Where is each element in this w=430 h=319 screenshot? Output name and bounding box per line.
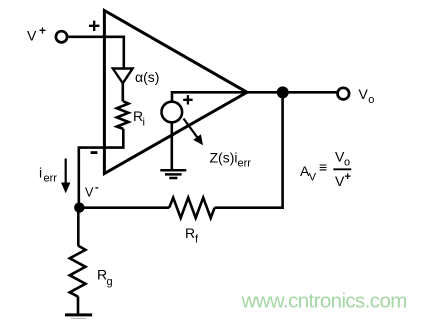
wire V+ input — [69, 35, 124, 38]
svg-text:R: R — [185, 225, 195, 241]
svg-text:i: i — [143, 117, 145, 129]
svg-text:+: + — [39, 24, 46, 38]
label Vo — [359, 86, 375, 106]
resistor Rf — [169, 198, 214, 218]
resistor Ri — [117, 101, 129, 129]
label + (source polarity) — [183, 95, 192, 104]
wire inverting input (Ri bottom to V- node) — [79, 129, 124, 208]
wire alpha to Ri — [122, 83, 125, 102]
svg-text:g: g — [107, 276, 113, 288]
label Rf — [185, 225, 199, 246]
svg-text:f: f — [195, 234, 199, 246]
svg-text:V: V — [309, 172, 317, 184]
wire V- node to Rg — [77, 208, 80, 246]
svg-text:err: err — [44, 173, 58, 185]
svg-text:-: - — [95, 182, 99, 194]
svg-text:o: o — [344, 157, 350, 169]
label Z(s)i_err — [210, 150, 252, 170]
formula Av = Vo/V+ — [300, 149, 351, 190]
label alpha(s) — [135, 69, 159, 85]
label i_err — [39, 165, 57, 185]
svg-text:V: V — [85, 186, 94, 200]
output terminal Vo — [338, 88, 350, 100]
svg-text:Z(s)i: Z(s)i — [210, 150, 238, 166]
arrow source pointer — [184, 119, 204, 146]
label V+ — [27, 24, 46, 44]
wire output rail — [172, 91, 337, 94]
label V- — [85, 182, 99, 200]
wire branch top — [123, 36, 126, 69]
wire Rg to ground — [77, 296, 80, 314]
svg-text:+: + — [345, 171, 351, 183]
wire Z source to ground — [171, 122, 174, 170]
svg-text:V: V — [359, 86, 369, 102]
wire Z source top — [171, 91, 174, 102]
op-amp U1 — [104, 11, 247, 174]
dependent source Z(s)i_err — [162, 102, 183, 123]
svg-text:i: i — [39, 165, 42, 181]
wire Rf to output node — [215, 92, 283, 207]
svg-text:≡: ≡ — [319, 159, 327, 175]
label + (non-inverting input) — [89, 21, 99, 31]
label Rg — [97, 267, 113, 289]
svg-text:www.cntronics.com: www.cntronics.com — [241, 290, 407, 313]
svg-text:err: err — [238, 158, 252, 170]
svg-text:o: o — [368, 94, 374, 106]
dependent source alpha(s) arrow — [113, 69, 133, 84]
svg-text:α(s): α(s) — [135, 69, 159, 85]
input terminal V+ — [56, 31, 67, 42]
node output junction dot — [277, 86, 289, 98]
ground (Rg) — [65, 315, 92, 319]
node V- junction dot — [74, 202, 84, 212]
ground (Z source) — [160, 170, 186, 178]
svg-text:V: V — [27, 28, 37, 44]
wire V- node to Rf — [79, 206, 169, 209]
resistor Rg — [70, 246, 86, 297]
label - (inverting input) — [91, 151, 98, 154]
svg-text:V: V — [335, 173, 345, 189]
current arrow i_err — [61, 159, 70, 194]
watermark www.cntronics.com — [241, 290, 407, 313]
label Ri — [133, 108, 145, 129]
